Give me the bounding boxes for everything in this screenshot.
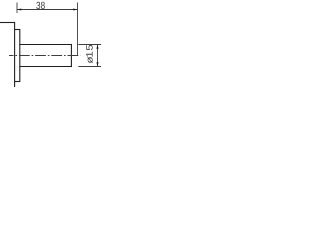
- dim38 arrow left: [17, 8, 21, 10]
- dim38 extension line right: [77, 3, 79, 56]
- dim38 dimension line: [17, 9, 78, 11]
- dia15 extension line top: [78, 44, 101, 46]
- flange right face: [19, 29, 21, 82]
- plate top edge: [0, 22, 15, 24]
- flange top edge: [15, 29, 20, 31]
- cylinder bottom edge: [20, 66, 72, 68]
- flange bottom edge: [15, 81, 20, 83]
- cylinder right end face: [70, 44, 72, 67]
- cylinder top edge: [20, 44, 72, 46]
- dia15 extension line bottom: [78, 66, 101, 68]
- plate right edge / flange left face: [14, 22, 16, 87]
- dim38 extension line left: [16, 3, 18, 14]
- dia15 arrow bottom: [96, 62, 98, 66]
- dia15 arrow top: [96, 45, 98, 49]
- dim38 text: [36, 2, 44, 9]
- centerline: [9, 55, 80, 57]
- dim38 arrow right: [73, 8, 77, 10]
- dia15 text: [86, 45, 93, 63]
- dia15 dimension line: [97, 45, 99, 67]
